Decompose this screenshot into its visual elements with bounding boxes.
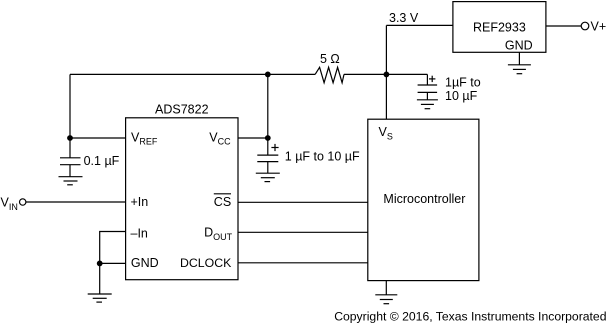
pin label CS with overline — [214, 194, 231, 209]
svg-text:DCLOCK: DCLOCK — [180, 256, 232, 270]
svg-text:REF2933: REF2933 — [473, 21, 526, 35]
wire CS to microcontroller — [238, 201, 368, 203]
svg-text:1µF to: 1µF to — [445, 76, 481, 90]
wire VIN to +In pin — [26, 201, 126, 203]
capacitor C3 1uF-10uF plates — [418, 85, 438, 92]
wire VCC pin to junction — [238, 137, 268, 139]
wire main supply rail left segment — [70, 73, 315, 75]
wire microcontroller ground stem — [385, 281, 387, 295]
svg-text:0.1 µF: 0.1 µF — [84, 154, 120, 168]
wire VCC cap stem — [267, 138, 269, 155]
svg-text:10 µF: 10 µF — [445, 89, 478, 103]
svg-text:VCC: VCC — [209, 130, 231, 146]
ground below C3 — [417, 100, 438, 109]
wire REF2933 GND pin stem — [518, 52, 520, 65]
wire REF2933 output to V+ terminal — [546, 25, 581, 27]
svg-text:1 µF to 10 µF: 1 µF to 10 µF — [285, 150, 360, 164]
svg-text:GND: GND — [131, 256, 159, 270]
capacitor C3 plus sign — [429, 76, 435, 82]
resistor R1 5 ohm zigzag — [315, 67, 344, 82]
junction VCC node — [265, 135, 271, 141]
svg-text:CS: CS — [214, 195, 231, 209]
svg-text:Copyright © 2016, Texas Instru: Copyright © 2016, Texas Instruments Inco… — [334, 310, 606, 324]
svg-text:+In: +In — [131, 195, 149, 209]
svg-text:ADS7822: ADS7822 — [155, 103, 209, 117]
ground below ADS7822 GND — [88, 294, 112, 302]
junction at VREF node — [67, 135, 73, 141]
wire DCLOCK to microcontroller — [238, 262, 368, 264]
svg-text:VREF: VREF — [131, 130, 158, 146]
wire C2 lower stem — [267, 162, 269, 174]
wire VCC junction up to rail — [267, 74, 269, 138]
svg-text:GND: GND — [505, 39, 533, 53]
svg-text:–In: –In — [131, 226, 148, 240]
wire C3 lower stem — [426, 92, 428, 99]
svg-text:5 Ω: 5 Ω — [320, 52, 340, 66]
wire 3.3V horizontal to REF2933 input — [386, 24, 453, 26]
ground below C2 — [256, 173, 280, 181]
wire ground stem below junction — [99, 263, 101, 294]
wire GND pin left — [100, 262, 126, 264]
IC U2 REF2933 box — [453, 2, 546, 53]
svg-text:DOUT: DOUT — [204, 226, 233, 242]
capacitor C2 plus sign — [271, 144, 278, 151]
wire VREF rail vertical at left — [69, 74, 71, 157]
IC U3 Microcontroller box — [368, 119, 479, 280]
capacitor C2 1uF-10uF plates — [257, 155, 278, 162]
svg-text:VS: VS — [379, 125, 393, 141]
junction at rail and VS branch — [384, 72, 390, 78]
IC U1 ADS7822 box — [126, 118, 238, 280]
junction at rail and VCC branch — [265, 72, 271, 78]
ground below microcontroller — [375, 295, 397, 304]
svg-text:Microcontroller: Microcontroller — [383, 192, 465, 206]
wire VREF node to ADS7822 VREF pin — [70, 137, 126, 139]
terminal VIN circle — [20, 199, 26, 205]
wire DOUT to microcontroller — [238, 231, 368, 233]
wire -In pin left — [100, 232, 126, 264]
junction -In GND node — [97, 261, 103, 267]
svg-text:VIN: VIN — [1, 196, 18, 212]
ground below C1 — [59, 177, 83, 185]
wire VS junction to C3 branch corner — [426, 74, 428, 85]
wire supply rail right of resistor — [344, 73, 428, 75]
wire 3.3V vertical down to VS node — [385, 25, 387, 119]
svg-text:3.3 V: 3.3 V — [389, 11, 419, 25]
wire C1 lower stem — [69, 165, 71, 177]
svg-text:V+: V+ — [591, 20, 607, 34]
terminal V+ circle — [581, 22, 589, 30]
ground below REF2933 — [508, 65, 531, 74]
capacitor C1 0.1uF plates — [60, 158, 81, 165]
